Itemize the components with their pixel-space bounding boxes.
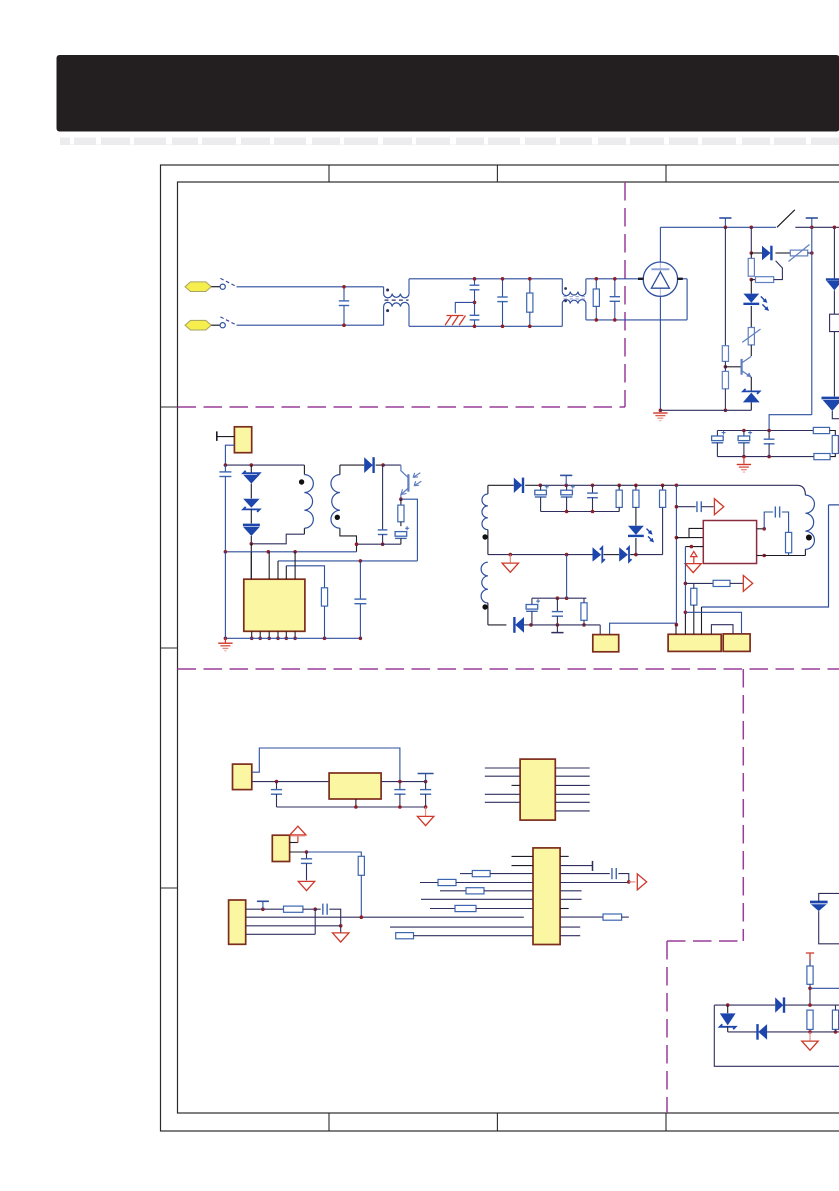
CN8 pin4 wire bbox=[246, 933, 316, 935]
CN4 pin wires bbox=[675, 625, 677, 635]
T1 primary polarity dot bbox=[299, 479, 304, 484]
common-mode choke LF2 bbox=[561, 279, 563, 292]
resistor R11 bbox=[321, 588, 327, 606]
resistor R13 bbox=[635, 485, 637, 490]
wire top row bbox=[714, 1004, 775, 1006]
capacitor C15 bbox=[592, 485, 594, 493]
wire to regulator U2 bbox=[676, 528, 703, 537]
resistor R9 snubber bottom bbox=[814, 454, 830, 460]
U2 pin2 wire bbox=[685, 546, 703, 548]
U5 pin wire with R25 bbox=[396, 933, 414, 939]
T2 secondary polarity dot lower bbox=[482, 604, 487, 609]
electrolytic capacitor C11 bbox=[405, 526, 409, 530]
zone divider dashed vertical bottom bbox=[666, 941, 668, 1113]
earth ground under C7 bbox=[743, 457, 745, 464]
net stub T2 bbox=[811, 218, 813, 227]
resistor R10 bbox=[400, 499, 402, 505]
wire secondary output to CN3 bbox=[488, 624, 507, 626]
U2 right pin upper bbox=[757, 528, 765, 530]
optocoupler light arrows bbox=[413, 473, 421, 486]
wire CN2 to node bbox=[225, 445, 234, 465]
bulk capacitor rail top bbox=[717, 430, 813, 432]
diode D14 bbox=[515, 617, 524, 633]
border zone ticks bottom bbox=[328, 1113, 330, 1131]
transformer T2 primary winding bbox=[797, 485, 805, 495]
net stub +V bbox=[565, 475, 567, 485]
junction ground rail bbox=[724, 409, 728, 413]
wire U3 output bbox=[381, 781, 426, 783]
capacitor C24 series bbox=[315, 908, 321, 910]
U4 left pin wires bbox=[485, 767, 520, 769]
U5 pin wire with R26 bbox=[560, 916, 603, 918]
U5 right pin stub 1 bbox=[560, 855, 569, 857]
net stub T1 bbox=[724, 218, 726, 227]
net label AC-N bbox=[185, 320, 211, 330]
bridge rectifier DB1 bbox=[659, 262, 661, 296]
T2 primary polarity dot bbox=[806, 535, 812, 541]
resistor R12 bbox=[618, 485, 620, 490]
junction R27 bbox=[808, 987, 812, 991]
T2 secondary polarity dot upper bbox=[482, 534, 487, 539]
varistor RV1 bbox=[790, 250, 807, 256]
connector CN5 yellow box bbox=[723, 634, 750, 652]
U5 pin wire plain 1 bbox=[421, 898, 533, 900]
wire U1 ground rail bbox=[225, 637, 360, 639]
resistor R16 compensation bbox=[786, 532, 792, 552]
signal arrow right lower bbox=[743, 575, 752, 591]
electrolytic capacitor C7 bbox=[743, 431, 745, 437]
diode D16 bbox=[775, 997, 783, 1012]
IC U1 controller yellow box bbox=[244, 579, 305, 631]
capacitor C25 series bbox=[560, 873, 610, 875]
zener D17 bbox=[727, 1005, 729, 1013]
wire CN3 pin2 bbox=[610, 623, 677, 634]
resistor R14 bbox=[662, 485, 664, 490]
wire mid rail bbox=[488, 554, 593, 556]
TVS D15 bbox=[810, 901, 828, 904]
LF1 polarity dots bbox=[386, 289, 389, 292]
resistor R5 under D1 bbox=[750, 253, 752, 258]
connector CN2 small yellow box bbox=[234, 427, 251, 453]
capacitor C16 series bbox=[676, 506, 695, 508]
junction R3-R4 bbox=[724, 365, 728, 369]
DB1 positive output wire bbox=[659, 227, 661, 262]
wire outer loop bottom right bbox=[714, 1005, 839, 1066]
junction C1 top bbox=[342, 285, 346, 289]
junction zener chain bottom bbox=[250, 542, 254, 546]
wire hexagon to terminal b bbox=[211, 324, 220, 326]
connector CN3 yellow box bbox=[593, 635, 619, 652]
terminal circle SW1-b bbox=[220, 323, 225, 328]
resistor R20 bbox=[284, 906, 303, 912]
CN8 pin2 wire long bbox=[246, 916, 524, 918]
terminal circle SW1-a bbox=[220, 284, 225, 289]
earth ground at bridge negative bbox=[659, 409, 663, 413]
ground arrow U3 bbox=[425, 807, 427, 816]
diode D8 bbox=[243, 524, 260, 527]
wire +V rail bbox=[540, 484, 797, 486]
transformer T2 secondary lower winding bbox=[481, 562, 488, 603]
wire HV top rail bbox=[660, 226, 776, 228]
wire opto to feedback bbox=[401, 499, 418, 561]
wire right-edge feedback loop bbox=[702, 505, 829, 607]
net stub at CN2 bbox=[217, 436, 235, 438]
CN4 pin4 wire bbox=[701, 607, 703, 634]
switch SW1 lever dashed bbox=[220, 278, 235, 286]
U5 pin wire with R21 bbox=[460, 873, 472, 875]
capacitor C5 across bridge input bbox=[614, 279, 616, 297]
LED D11 bbox=[635, 507, 637, 525]
wire CN6 to regulator U3 bbox=[252, 781, 329, 783]
wire primary winding return bbox=[764, 555, 805, 557]
connector CN7 yellow box bbox=[272, 835, 289, 861]
junction D10 out bbox=[539, 484, 543, 488]
diode D18 bbox=[758, 1024, 767, 1040]
net label AC-L bbox=[185, 282, 211, 292]
wire secondary sense vertical bbox=[675, 485, 677, 624]
resistor R8 snubber right bbox=[830, 431, 836, 436]
ground arrow mid rail bbox=[509, 555, 511, 563]
U1 bottom pin stubs bbox=[251, 631, 253, 638]
border zone ticks top bbox=[328, 165, 330, 182]
resistor chain R3 R4 vertical bbox=[724, 227, 726, 345]
wire top rail filter bbox=[409, 278, 562, 280]
electrolytic capacitor C18 bbox=[530, 624, 533, 626]
resistor R27 bbox=[809, 960, 811, 967]
zener D3 bbox=[750, 377, 752, 391]
junction D9 cathode bbox=[381, 463, 385, 467]
junction HV rail bbox=[750, 226, 754, 230]
transformer T1 secondary winding bbox=[331, 475, 340, 529]
capacitor C21 bbox=[399, 782, 401, 790]
junction C1 bottom bbox=[342, 323, 346, 327]
signal arrow U5 out bbox=[629, 881, 636, 883]
capacitor C23 bbox=[306, 852, 308, 859]
sheet inner border bbox=[178, 182, 839, 1113]
capacitor C22 bbox=[425, 774, 427, 782]
earth ground U1 bbox=[224, 638, 226, 642]
resistor R18 vertical bbox=[691, 588, 697, 605]
optocoupler phototransistor Q2 bbox=[383, 464, 401, 466]
wire R27 branch right bbox=[810, 987, 839, 989]
CN4-CN5 link wire bbox=[711, 625, 733, 635]
U5 terminator pin bbox=[560, 865, 592, 867]
T1 secondary polarity dot bbox=[335, 515, 340, 520]
transformer T1 primary winding bbox=[303, 465, 305, 475]
resistor R15 horizontal bbox=[685, 582, 713, 584]
bulk capacitor rail bottom bbox=[717, 456, 814, 458]
wire output row bbox=[531, 624, 600, 626]
wire pin rail 3 bbox=[286, 566, 324, 588]
resistor R29 bbox=[832, 1010, 838, 1029]
U5 pin wire plain 2 bbox=[390, 926, 533, 928]
U5 left pin stubs bbox=[512, 855, 534, 857]
ground arrow under U2 bbox=[685, 564, 701, 573]
LED D2 emission arrows bbox=[761, 296, 766, 308]
wire to bridge top bbox=[586, 278, 643, 280]
electrolytic capacitor C13 bbox=[545, 485, 549, 489]
IC U5 yellow box bbox=[533, 848, 560, 945]
wire diode branch bbox=[750, 227, 752, 253]
U1 top pin wires bbox=[250, 552, 252, 579]
capacitor C10 bbox=[382, 465, 384, 529]
CN8 pin3 wire bbox=[246, 925, 341, 927]
wire bottom row bbox=[728, 1031, 757, 1033]
wire aux top rail bbox=[225, 464, 304, 466]
wire N to C1 bbox=[237, 324, 384, 326]
wire U3 ground row bbox=[277, 806, 426, 808]
electrolytic capacitor C14 bbox=[571, 485, 575, 489]
off-page loop upper right bbox=[830, 314, 839, 331]
capacitor C17 compensation bbox=[764, 512, 773, 529]
diode D9 bbox=[340, 464, 364, 466]
wire aux ground rail bbox=[225, 551, 356, 553]
U5 pin wire with R22 bbox=[420, 882, 438, 884]
IC U4 yellow box bbox=[520, 759, 555, 820]
DB1 AC terminal stubs bbox=[638, 278, 644, 280]
electrolytic capacitor C6 bbox=[716, 431, 718, 437]
wire lower bus bbox=[532, 597, 587, 599]
faint caption row bbox=[60, 138, 839, 146]
capacitor C4 bbox=[502, 279, 504, 297]
switch SW1 lever b dashed bbox=[220, 317, 235, 325]
wire HV right vertical bbox=[811, 227, 813, 414]
resistor R28 bbox=[807, 1010, 813, 1029]
wire aux secondary return bbox=[357, 543, 401, 545]
TVS D5 right edge lower bbox=[822, 397, 839, 400]
junction opto emitter bbox=[399, 497, 403, 501]
wire ground return bbox=[660, 409, 751, 411]
diode D1 bbox=[751, 252, 762, 254]
resistor R6 horizontal bbox=[751, 279, 755, 281]
U5 pin wire with R23 bbox=[440, 890, 466, 892]
connector CN8 yellow box bbox=[229, 900, 246, 944]
varistor RV2 bbox=[748, 328, 754, 345]
junction CN4 pin1 bbox=[675, 623, 679, 627]
wire U2 lower-left net bbox=[684, 547, 686, 613]
capacitor C12 bbox=[359, 561, 361, 599]
wire bottom to bridge right bbox=[586, 319, 687, 321]
wire feedback rail bbox=[278, 560, 417, 562]
zener D7 bbox=[243, 499, 259, 508]
wire hexagon to terminal bbox=[211, 286, 220, 288]
switch/fuse lever bbox=[777, 210, 795, 228]
zone divider dashed vertical primary bbox=[624, 182, 626, 407]
regulator U2 maroon box bbox=[703, 521, 756, 564]
capacitor C20 bbox=[276, 782, 278, 790]
wire D15 loop bbox=[819, 893, 839, 902]
junction LED cathode bbox=[634, 553, 638, 557]
resistor R7 snubber top bbox=[813, 427, 829, 433]
LED D11 emission arrows bbox=[647, 529, 652, 540]
U5 right pin stubs bottom bbox=[560, 926, 580, 928]
zener D13 bbox=[619, 547, 628, 561]
net stub red bbox=[806, 953, 814, 960]
capacitor C9 left bbox=[224, 465, 226, 472]
wire capacitor bus bbox=[541, 511, 620, 513]
TVS D4 right edge upper bbox=[833, 227, 835, 278]
connector CN4 yellow box bbox=[668, 634, 721, 651]
signal arrow right bbox=[714, 499, 723, 515]
resistor R19 bbox=[358, 856, 364, 875]
U4 right pin wires bbox=[555, 767, 589, 769]
wire bottom rail filter bbox=[409, 325, 562, 327]
transistor Q1 bbox=[725, 366, 740, 368]
wire CN6 feedback loop bbox=[252, 748, 400, 782]
net stub CN8 bbox=[262, 901, 264, 909]
LF2 polarity dots bbox=[564, 287, 567, 290]
capacitor C19 bbox=[556, 598, 558, 612]
wire L to C1 bbox=[237, 286, 384, 288]
wire CN7 signal bbox=[290, 851, 307, 853]
ground arrow CN8 bbox=[333, 933, 349, 942]
title banner bbox=[57, 55, 839, 132]
chassis ground symbol bbox=[445, 316, 465, 326]
transformer T2 secondary upper winding bbox=[487, 485, 489, 494]
zone divider dashed horizontal lower bbox=[178, 668, 839, 670]
diode D10 bbox=[488, 484, 514, 486]
connector CN6 yellow box bbox=[233, 764, 252, 790]
sheet outer border bbox=[161, 165, 839, 1131]
U2 right pin lower bbox=[757, 555, 765, 557]
ground arrow bottom right bbox=[809, 1032, 811, 1041]
resistor R1 discharge bbox=[529, 279, 531, 293]
resistor R17 bbox=[583, 598, 585, 603]
zone divider dashed horizontal upper bbox=[178, 406, 626, 408]
resistor R2 across bridge input bbox=[595, 279, 597, 289]
zone divider dashed vertical right bbox=[742, 669, 744, 941]
common-mode choke LF1 bbox=[383, 287, 385, 294]
U2 pin wire straight bbox=[676, 537, 703, 539]
zener D12 bbox=[593, 547, 602, 561]
capacitor C1 across line bbox=[343, 287, 345, 301]
power arrow CN7 bbox=[290, 842, 298, 844]
U5 pin wire with R24 bbox=[430, 908, 455, 910]
border zone ticks left bbox=[161, 406, 178, 408]
ground arrow C23 bbox=[298, 881, 314, 890]
U5 output wire bbox=[560, 882, 629, 884]
power arrow at U2 bbox=[693, 556, 695, 563]
Y-capacitors C2 C3 with chassis ground bbox=[474, 279, 476, 286]
LED D2 of optocoupler bbox=[750, 280, 752, 294]
zener D6 bbox=[250, 465, 252, 473]
DB1 negative output wire bbox=[659, 296, 661, 410]
CN5 pin wire bbox=[685, 612, 741, 634]
CN8 pin1 wire bbox=[246, 908, 284, 910]
regulator U3 yellow box bbox=[329, 773, 381, 799]
zone divider dashed jog bbox=[667, 940, 743, 942]
capacitor C8 bbox=[768, 431, 770, 440]
U5 right pin stubs mid bbox=[560, 890, 582, 892]
